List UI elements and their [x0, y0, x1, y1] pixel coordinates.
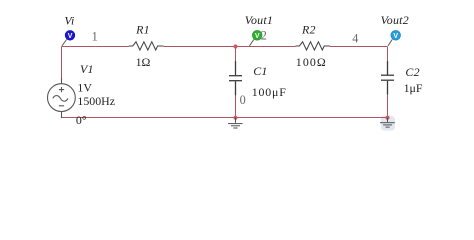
svg-text:1Ω: 1Ω [136, 55, 151, 69]
probe Vi [62, 30, 75, 45]
ground under C1 [228, 118, 243, 129]
selection halo behind right ground [381, 116, 395, 131]
svg-text:V: V [393, 33, 398, 40]
capacitor C2 [381, 61, 394, 95]
svg-text:1: 1 [92, 30, 98, 44]
svg-text:Vout1: Vout1 [245, 13, 273, 27]
svg-text:C2: C2 [405, 65, 419, 79]
junction at node 2 (R1/R2/C1) [233, 44, 237, 48]
wire C1 branch bottom [235, 95, 237, 118]
svg-text:1500Hz: 1500Hz [77, 94, 115, 108]
resistor R1 [129, 42, 164, 50]
svg-text:R1: R1 [135, 23, 150, 37]
resistor R2 [295, 42, 330, 50]
svg-text:V: V [68, 33, 73, 40]
svg-text:0: 0 [240, 93, 246, 107]
svg-text:R2: R2 [301, 23, 316, 37]
svg-text:0°: 0° [76, 113, 87, 127]
wire C2 branch bottom [387, 95, 389, 118]
wire left branch (node 1 down to V1 plus pin) [61, 47, 63, 79]
svg-text:C1: C1 [253, 64, 267, 78]
wire C2 branch top [387, 47, 389, 62]
probe Vout1 [250, 30, 263, 45]
svg-text:1μF: 1μF [404, 81, 423, 95]
wire C1 branch top [235, 47, 237, 62]
AC source V1 [48, 78, 76, 119]
probe Vout2 [388, 30, 401, 45]
svg-text:4: 4 [352, 32, 358, 46]
wire top right (node 4, R2 to C2) [330, 46, 388, 48]
capacitor C1 [229, 61, 242, 95]
wire bottom rail (node 0) [62, 117, 388, 119]
ground under C2 (highlighted) [380, 118, 395, 128]
junction C1 to ground rail [233, 116, 237, 120]
svg-text:Vout2: Vout2 [381, 13, 409, 27]
junction C2 to ground rail [385, 116, 389, 120]
wire top left (node 1, V1 to R1) [62, 46, 130, 48]
svg-text:V: V [255, 33, 260, 40]
svg-text:100μF: 100μF [252, 85, 287, 99]
svg-text:100Ω: 100Ω [296, 55, 327, 69]
svg-text:Vi: Vi [64, 13, 74, 27]
wire top middle (node 2, R1 to R2) [164, 46, 296, 48]
svg-text:V1: V1 [80, 62, 94, 76]
svg-text:1V: 1V [77, 81, 92, 95]
